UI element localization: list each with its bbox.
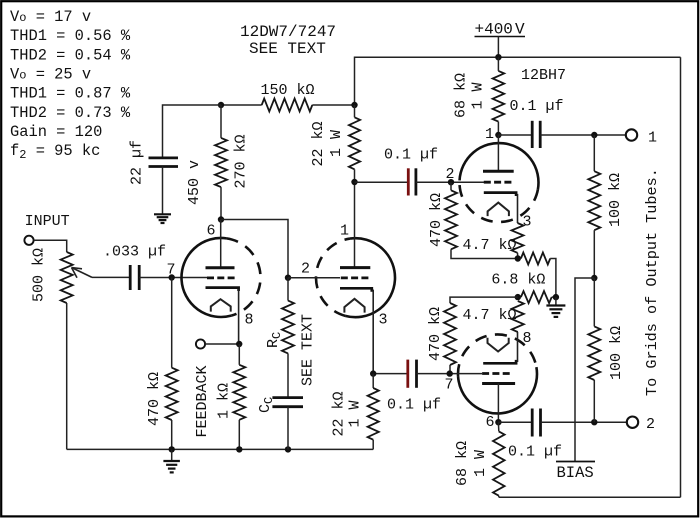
- tube U2 envelope dashed arc: [458, 334, 536, 376]
- pin label 1 U1: [485, 126, 494, 143]
- node rail 470k: [169, 446, 175, 452]
- resistor 68 kOhm 1W bottom: [493, 431, 505, 495]
- svg-text:6.8 kΩ: 6.8 kΩ: [491, 272, 545, 289]
- pin label 2 U1: [446, 166, 455, 183]
- svg-text:470 kΩ: 470 kΩ: [428, 193, 445, 247]
- resistor 22 kOhm 1W top: [349, 117, 360, 169]
- resistor 4.7 kOhm bottom: [512, 301, 524, 332]
- wire pin1 to out-cap: [498, 134, 532, 136]
- terminal 1: [626, 129, 637, 140]
- BIAS overline: [556, 461, 595, 463]
- node V2 cathode junction: [370, 370, 376, 376]
- label .033 uF: [103, 244, 166, 261]
- node C ground junction: [553, 294, 559, 300]
- label 450 v: [186, 160, 203, 205]
- pin label 8 U2: [523, 330, 532, 347]
- wire 470kRT top lead: [450, 182, 452, 190]
- label 470 kOhm right-top: [428, 193, 445, 247]
- node rail Cc: [285, 446, 291, 452]
- wire rail ground stem: [171, 449, 173, 460]
- label terminal 2: [646, 416, 655, 433]
- node U2 grid pin7: [447, 370, 453, 376]
- wire 22k-bot top lead: [372, 374, 374, 388]
- tube V2 envelope solid arc: [345, 238, 395, 317]
- svg-text:Vo = 17 v: Vo = 17 v: [10, 8, 91, 26]
- wire 270k bottom lead: [220, 187, 222, 219]
- node divider top: [591, 132, 597, 138]
- node B cathode bottom: [515, 294, 521, 300]
- node U2 plate pin6: [495, 419, 501, 425]
- label 150 kOhm: [261, 82, 315, 99]
- svg-text:.033 µf: .033 µf: [103, 244, 166, 261]
- node U1 plate pin1: [495, 132, 501, 138]
- label 0.1 uF upper-left: [384, 147, 438, 164]
- label 1 W 22k-bottom: [347, 400, 364, 427]
- node U1 grid pin2: [448, 179, 454, 185]
- wire 150k left lead: [221, 104, 262, 106]
- wire 6.8k-lower to node C: [552, 296, 556, 298]
- tube V1 plate lead: [220, 220, 222, 268]
- resistor 470 kOhm right-bottom: [444, 303, 456, 365]
- svg-text:22 µf: 22 µf: [129, 140, 146, 185]
- wire 4.7k-top to node A: [517, 253, 519, 259]
- svg-text:100 kΩ: 100 kΩ: [608, 326, 625, 380]
- tube V1 heater: [211, 299, 231, 311]
- label 6.8 kOhm: [491, 272, 545, 289]
- node plate V1 pin6: [218, 216, 224, 222]
- label SEE TEXT (top): [249, 40, 326, 58]
- capacitor 22 uF 450 v: [149, 158, 179, 167]
- svg-text:FEEDBACK: FEEDBACK: [194, 365, 211, 437]
- resistor 6.8 kOhm lower: [521, 291, 552, 303]
- wire 150k right lead: [312, 104, 354, 106]
- svg-text:1: 1: [648, 130, 657, 147]
- wire 100k-top leads: [593, 135, 595, 171]
- wire input to pot: [34, 240, 67, 252]
- wire out-cap2 to terminal 2: [541, 421, 627, 423]
- tube V1 cathode: [206, 288, 239, 344]
- label 12DW7/7247: [240, 23, 336, 41]
- wire 100k-bot top lead: [593, 278, 595, 326]
- resistor Rc: [282, 301, 294, 354]
- label Cc: [257, 397, 276, 413]
- label 0.1 uF out2: [508, 444, 562, 461]
- terminal FEEDBACK: [196, 339, 205, 348]
- svg-text:100 kΩ: 100 kΩ: [607, 173, 624, 227]
- ground node C: [546, 306, 565, 317]
- label 68 kOhm top: [453, 73, 470, 118]
- wire 470kRB top lead: [450, 297, 518, 303]
- wire 470kRB bottom lead: [449, 365, 451, 374]
- svg-text:470 kΩ: 470 kΩ: [146, 372, 163, 426]
- resistor 1 kOhm: [233, 365, 245, 420]
- pin label 6: [207, 223, 216, 240]
- svg-text:2: 2: [646, 416, 655, 433]
- tube V1 envelope dashed arc: [227, 238, 261, 315]
- tube U1 plate lead: [497, 135, 499, 171]
- wire 68k-top lead: [497, 57, 499, 71]
- wire 470k-left bottom lead: [171, 420, 173, 449]
- wire 100k-top bottom lead: [593, 230, 595, 278]
- svg-text:THD2 = 0.73 %: THD2 = 0.73 %: [10, 104, 131, 122]
- wire 22k-bot to rail: [372, 440, 374, 450]
- svg-text:7: 7: [167, 262, 176, 279]
- svg-text:THD1 = 0.87 %: THD1 = 0.87 %: [10, 85, 131, 103]
- svg-text:22 kΩ: 22 kΩ: [310, 121, 327, 166]
- svg-text:6: 6: [486, 414, 495, 431]
- svg-text:0.1 µf: 0.1 µf: [510, 98, 564, 115]
- tube V2 cathode: [340, 288, 373, 373]
- tube V2 grid dashes: [341, 276, 369, 279]
- tube V2 heater: [344, 299, 364, 313]
- svg-text:THD2 = 0.54 %: THD2 = 0.54 %: [10, 46, 131, 64]
- svg-text:6: 6: [207, 223, 216, 240]
- pin label 7 U2: [445, 377, 454, 394]
- tube V2 envelope dashed arc: [316, 239, 350, 316]
- wire V2 cathode node to cap: [373, 373, 408, 375]
- svg-text:8: 8: [245, 312, 254, 329]
- terminal 2: [627, 417, 638, 428]
- svg-text:150 kΩ: 150 kΩ: [261, 82, 315, 99]
- wire Rc top lead: [287, 278, 289, 301]
- svg-text:4.7 kΩ: 4.7 kΩ: [463, 307, 517, 324]
- resistor 270 kOhm: [215, 138, 227, 187]
- wire cap to ground: [162, 167, 164, 215]
- resistor 470 kOhm right-top: [445, 190, 457, 249]
- wire 68k-bottom lead: [497, 122, 499, 135]
- pot wiper arrow: [72, 268, 131, 278]
- svg-text:SEE TEXT: SEE TEXT: [300, 314, 317, 386]
- label 4.7 kOhm top: [463, 237, 517, 254]
- tube U1 grid dashes: [484, 181, 513, 184]
- svg-text:450 v: 450 v: [186, 160, 203, 205]
- label 22 kOhm top: [310, 121, 327, 166]
- wire 100k-bot bottom lead: [593, 380, 595, 422]
- wire B+ bottom return: [499, 496, 681, 498]
- svg-text:1: 1: [340, 223, 349, 240]
- tube U1 cathode: [484, 193, 518, 223]
- pin label 2: [301, 261, 310, 278]
- resistor 470 kOhm left: [166, 368, 178, 420]
- tube V1 plate bar: [206, 266, 235, 269]
- wire pot bottom to ground rail: [66, 303, 68, 449]
- svg-text:Vo = 25 v: Vo = 25 v: [10, 65, 91, 83]
- label 100 kOhm top: [607, 173, 624, 227]
- tube U2 cathode: [483, 332, 517, 363]
- svg-text:2: 2: [301, 261, 310, 278]
- capacitor 0.1 uF lower-left: [408, 360, 417, 388]
- wire V2 grid lead: [288, 277, 340, 279]
- tube V2 plate bar: [340, 266, 370, 269]
- resistor 100 kOhm bottom: [588, 326, 600, 380]
- svg-text:1 W: 1 W: [470, 82, 487, 109]
- tube U2 plate bar: [482, 382, 515, 385]
- wire 68k-bot top lead: [497, 422, 499, 431]
- potentiometer 500 kOhm: [61, 252, 73, 303]
- tube U2 envelope solid arc: [458, 367, 537, 413]
- note To Grids of Output Tubes: [643, 168, 661, 396]
- wire +400V to rail: [497, 37, 499, 58]
- wire 470kRT bottom lead: [451, 249, 518, 258]
- wire bias feed: [575, 278, 594, 462]
- svg-text:22 kΩ: 22 kΩ: [331, 391, 348, 436]
- label 1 W 68k-bottom: [472, 450, 489, 477]
- capacitor 0.1 uF out1: [532, 121, 540, 148]
- ground below 22uF: [154, 214, 171, 223]
- node V1 pin7: [169, 274, 175, 280]
- wire ground rail: [67, 448, 374, 450]
- svg-text:BIAS: BIAS: [557, 464, 594, 482]
- pin label 7: [167, 262, 176, 279]
- wire cap to V1 grid: [139, 277, 207, 279]
- tube U2 plate lead: [497, 384, 499, 423]
- wire Cc to rail: [287, 407, 289, 450]
- label 470 kOhm left: [146, 372, 163, 426]
- svg-text:1 W: 1 W: [472, 450, 489, 477]
- wire 68k-bot corner: [498, 496, 500, 498]
- node +400V tap: [495, 54, 501, 60]
- node divider bottom: [591, 419, 597, 425]
- svg-text:470 kΩ: 470 kΩ: [427, 307, 444, 361]
- node V2 plate pin1: [351, 179, 357, 185]
- svg-text:1 W: 1 W: [328, 130, 345, 157]
- tube U1 heater: [488, 203, 509, 217]
- svg-text:270 kΩ: 270 kΩ: [233, 134, 250, 188]
- label BIAS: [557, 464, 594, 482]
- resistor 150 kOhm: [262, 99, 313, 112]
- capacitor 0.1 uF out2: [532, 409, 540, 437]
- label 22 uF: [129, 140, 146, 185]
- pin label 3: [379, 312, 388, 329]
- wire 270k top lead: [220, 105, 222, 138]
- wire out-cap to terminal 1: [540, 134, 626, 136]
- wire 22k-bottom lead: [354, 169, 356, 182]
- wire 6.8k-upper to node C: [550, 259, 556, 298]
- wire 470k-left top lead: [171, 278, 173, 368]
- svg-text:THD1 = 0.56 %: THD1 = 0.56 %: [10, 27, 131, 45]
- +400 V supply bar: [475, 36, 526, 38]
- node cathode V1: [236, 341, 242, 347]
- label SEE TEXT vertical: [300, 314, 317, 386]
- svg-text:V: V: [515, 20, 525, 38]
- label 470 kOhm right-bottom: [427, 307, 444, 361]
- node V2 grid pin2: [285, 275, 291, 281]
- svg-text:+400: +400: [475, 20, 513, 38]
- capacitor .033 uF: [130, 265, 139, 290]
- resistor 68 kOhm 1W top: [493, 71, 505, 122]
- label 4.7 kOhm bottom: [463, 307, 517, 324]
- svg-text:SEE TEXT: SEE TEXT: [249, 40, 326, 58]
- ground below rail: [163, 461, 180, 472]
- wire 1k bottom lead: [238, 420, 240, 450]
- tube U2 heater: [488, 338, 509, 352]
- svg-text:Gain = 120: Gain = 120: [10, 123, 102, 141]
- label Rc: [265, 332, 284, 348]
- wire pin6 to out-cap2: [498, 421, 532, 423]
- tube U1 envelope dashed arc: [459, 180, 537, 222]
- label FEEDBACK: [194, 365, 211, 437]
- wire 1k top lead: [238, 344, 240, 365]
- label 100 kOhm bottom: [608, 326, 625, 380]
- svg-text:3: 3: [379, 312, 388, 329]
- node 150k-22k junction: [351, 102, 357, 108]
- pin label 3 U1: [523, 214, 532, 231]
- label 0.1 uF out1: [510, 98, 564, 115]
- tube V1 envelope solid arc: [181, 238, 231, 317]
- terminal INPUT: [24, 236, 33, 245]
- wire B+ top rail: [355, 57, 681, 105]
- pin label 6 U2: [486, 414, 495, 431]
- svg-text:0.1 µf: 0.1 µf: [384, 147, 438, 164]
- svg-text:4.7 kΩ: 4.7 kΩ: [463, 237, 517, 254]
- wire 22k-top lead: [354, 105, 356, 117]
- wire cap to U2 grid: [417, 373, 483, 375]
- label 1 W 68k-top: [470, 82, 487, 109]
- label 22 kOhm bottom: [331, 391, 348, 436]
- pin label 1: [340, 223, 349, 240]
- svg-text:3: 3: [523, 214, 532, 231]
- wire pin1 to cap: [355, 181, 409, 183]
- svg-text:To Grids of Output Tubes.: To Grids of Output Tubes.: [643, 168, 661, 396]
- svg-text:12BH7: 12BH7: [521, 67, 566, 84]
- capacitor Cc: [272, 398, 303, 407]
- pin label 8: [245, 312, 254, 329]
- svg-text:1 W: 1 W: [347, 400, 364, 427]
- wire Rc to Cc: [287, 353, 289, 397]
- wire B+ right side: [680, 57, 682, 497]
- label terminal 1: [648, 130, 657, 147]
- resistor 22 kOhm 1W bottom: [368, 388, 379, 440]
- wire node C ground stem: [555, 297, 557, 305]
- label 500 kOhm: [31, 248, 48, 302]
- wire feedback to cathode node: [205, 343, 239, 345]
- svg-text:0.1 µf: 0.1 µf: [508, 444, 562, 461]
- label 0.1 uF lower-left: [387, 397, 441, 414]
- tube V2 plate lead: [354, 182, 356, 268]
- svg-text:12DW7/7247: 12DW7/7247: [240, 23, 336, 41]
- capacitor 0.1 uF upper-left: [408, 168, 416, 195]
- tube U1 plate bar: [483, 170, 514, 173]
- node divider middle: [591, 275, 597, 281]
- svg-text:68 kΩ: 68 kΩ: [453, 73, 470, 118]
- resistor 4.7 kOhm top: [512, 223, 524, 253]
- tube U1 envelope solid arc: [460, 143, 539, 189]
- svg-text:500 kΩ: 500 kΩ: [31, 248, 48, 302]
- label 1 W top: [328, 130, 345, 157]
- +400 V supply label: [475, 20, 526, 38]
- svg-text:0.1 µf: 0.1 µf: [387, 397, 441, 414]
- measurement notes text block: [10, 8, 131, 162]
- resistor 6.8 kOhm upper: [521, 253, 550, 265]
- tube U2 grid dashes: [482, 372, 512, 375]
- label 270 kOhm: [233, 134, 250, 188]
- label 68 kOhm bottom: [454, 441, 471, 486]
- tube V1 grid dashes: [207, 276, 235, 279]
- label 12BH7: [521, 67, 566, 84]
- wire V1 plate to V2 grid: [221, 220, 288, 278]
- wire decoupling branch: [163, 105, 222, 158]
- svg-text:1 kΩ: 1 kΩ: [216, 383, 233, 419]
- svg-text:7: 7: [445, 377, 454, 394]
- svg-text:2: 2: [446, 166, 455, 183]
- svg-text:1: 1: [485, 126, 494, 143]
- label INPUT: [25, 213, 70, 230]
- svg-text:68 kΩ: 68 kΩ: [454, 441, 471, 486]
- node A cathode top: [515, 255, 521, 261]
- resistor 100 kOhm top: [588, 171, 600, 230]
- node rail 1k: [236, 446, 242, 452]
- svg-text:INPUT: INPUT: [25, 213, 70, 230]
- label 1 kOhm: [216, 383, 233, 419]
- wire cap to U1 grid: [416, 181, 484, 183]
- node 150k-270k junction: [218, 102, 224, 108]
